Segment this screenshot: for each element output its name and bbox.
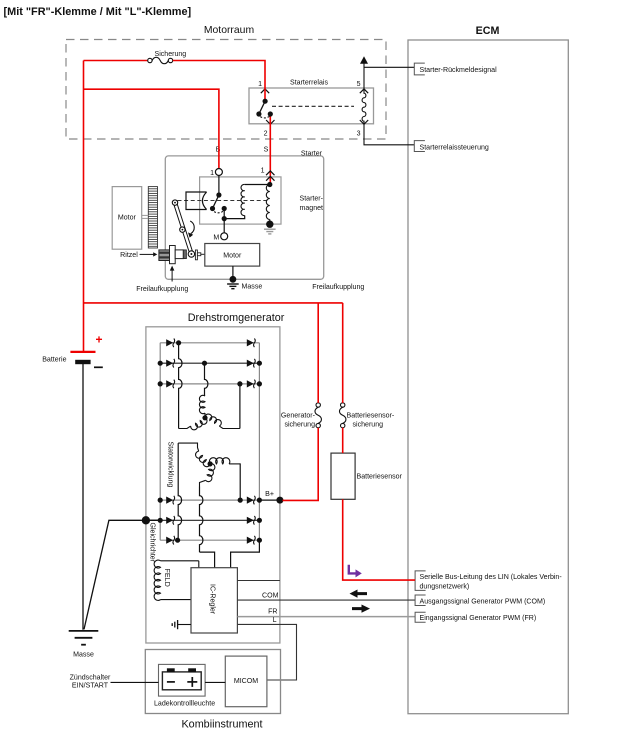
- svg-text:FR: FR: [268, 609, 277, 616]
- svg-text:2: 2: [264, 131, 268, 138]
- svg-text:Starter: Starter: [301, 151, 323, 158]
- svg-text:Batteriesensor-: Batteriesensor-: [347, 413, 395, 420]
- svg-text:Ritzel: Ritzel: [120, 252, 138, 259]
- svg-text:MICOM: MICOM: [234, 678, 258, 685]
- svg-text:Batterie: Batterie: [42, 357, 66, 364]
- svg-text:Zündschalter: Zündschalter: [70, 675, 111, 682]
- svg-text:Freilaufkupplung: Freilaufkupplung: [312, 284, 364, 291]
- svg-text:Generator-: Generator-: [281, 413, 316, 420]
- svg-text:Kombiinstrument: Kombiinstrument: [181, 719, 262, 731]
- svg-text:1: 1: [258, 81, 262, 88]
- svg-text:magnet: magnet: [300, 205, 324, 212]
- svg-text:EIN/START: EIN/START: [72, 683, 109, 690]
- svg-text:[Mit "FR"-Klemme / Mit "L"-Kle: [Mit "FR"-Klemme / Mit "L"-Klemme]: [4, 6, 192, 18]
- svg-text:Masse: Masse: [242, 284, 263, 291]
- svg-text:FELD: FELD: [163, 569, 172, 587]
- svg-text:Batteriesensor: Batteriesensor: [357, 474, 403, 481]
- svg-text:M: M: [213, 235, 219, 242]
- svg-text:1: 1: [210, 170, 214, 177]
- svg-text:3: 3: [357, 131, 361, 138]
- svg-text:Sicherung: Sicherung: [155, 51, 187, 58]
- svg-text:Ausgangssignal Generator PWM (: Ausgangssignal Generator PWM (COM): [420, 599, 546, 606]
- svg-text:COM: COM: [262, 593, 279, 600]
- svg-text:dungsnetzwerk): dungsnetzwerk): [420, 583, 470, 590]
- svg-text:Starter-Rückmeldesignal: Starter-Rückmeldesignal: [420, 67, 498, 74]
- svg-text:+: +: [96, 333, 103, 347]
- svg-text:Starter-: Starter-: [300, 196, 324, 203]
- svg-text:Starterrelaissteuerung: Starterrelaissteuerung: [420, 144, 489, 151]
- svg-text:Ladekontrollleuchte: Ladekontrollleuchte: [154, 701, 215, 708]
- svg-text:sicherung: sicherung: [353, 422, 384, 429]
- svg-text:ECM: ECM: [476, 25, 500, 37]
- svg-text:sicherung: sicherung: [284, 422, 315, 429]
- svg-text:Drehstromgenerator: Drehstromgenerator: [188, 312, 285, 324]
- svg-text:5: 5: [357, 81, 361, 88]
- svg-text:Gleichrichter: Gleichrichter: [148, 523, 155, 563]
- svg-text:Statorwicklung: Statorwicklung: [167, 442, 174, 488]
- svg-text:Serielle Bus-Leitung des LIN (: Serielle Bus-Leitung des LIN (Lokales Ve…: [420, 574, 563, 581]
- svg-text:S: S: [264, 147, 269, 154]
- svg-text:Motor: Motor: [118, 215, 137, 222]
- svg-text:1: 1: [261, 168, 265, 175]
- svg-text:B+: B+: [265, 491, 274, 498]
- svg-text:Motorraum: Motorraum: [204, 25, 254, 36]
- svg-text:L: L: [273, 617, 277, 624]
- svg-text:Masse: Masse: [73, 652, 94, 659]
- svg-text:Starterrelais: Starterrelais: [290, 80, 328, 87]
- svg-text:Motor: Motor: [223, 253, 242, 260]
- svg-text:Freilaufkupplung: Freilaufkupplung: [136, 286, 188, 293]
- svg-text:IC-Regler: IC-Regler: [209, 584, 216, 615]
- svg-text:Eingangssignal Generator PWM (: Eingangssignal Generator PWM (FR): [420, 615, 537, 622]
